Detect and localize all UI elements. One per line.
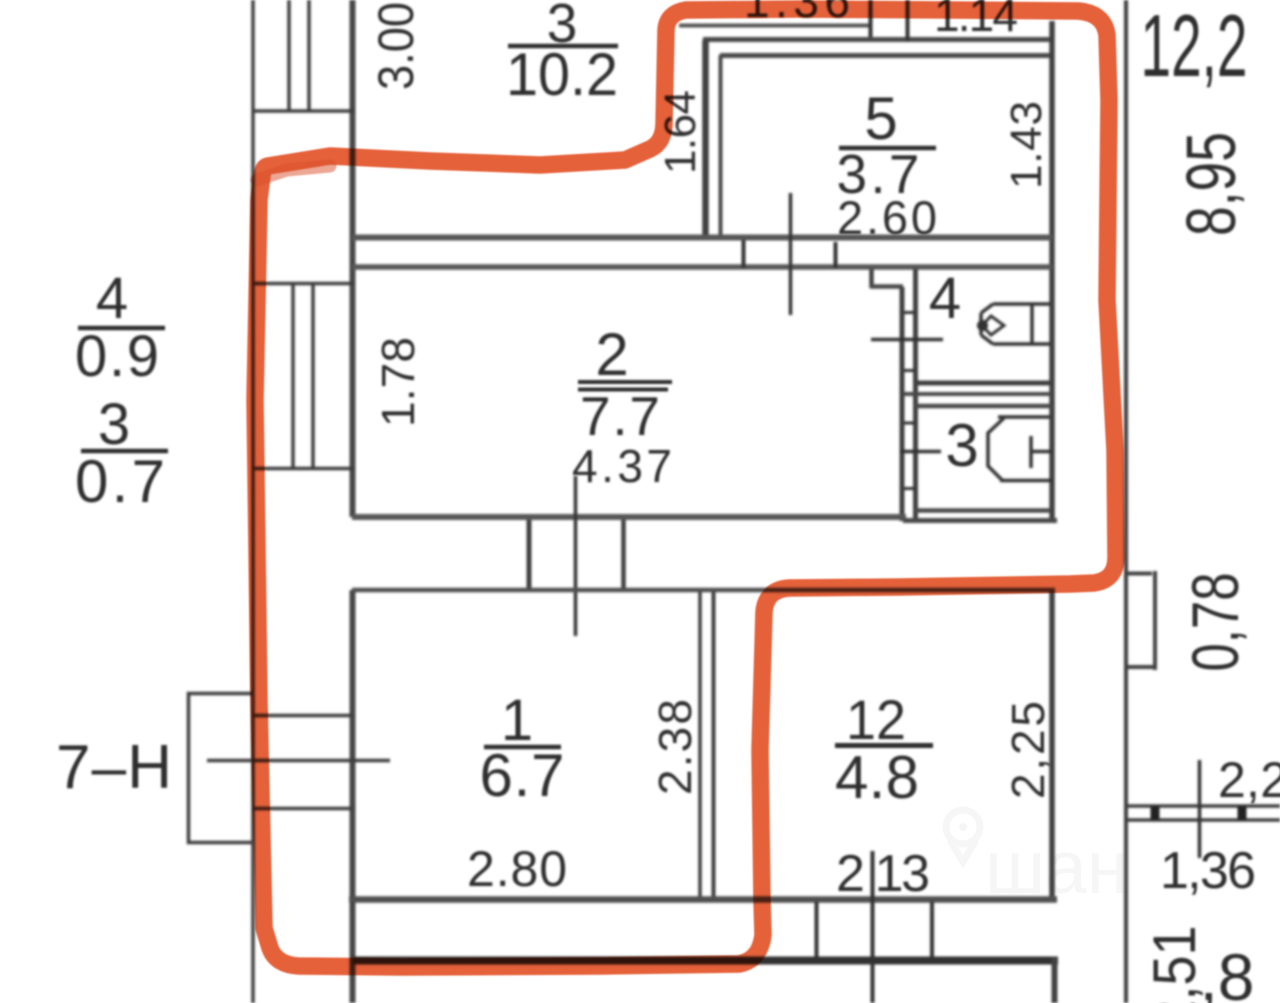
room2 fraction bar [578,382,672,390]
svg-text:2.38: 2.38 [649,699,701,795]
red marker loop [255,9,1116,967]
top tick b [906,0,910,41]
svg-text:2 13: 2 13 [836,845,930,903]
svg-text:8,95: 8,95 [1172,132,1250,236]
wall step v [869,269,874,288]
room5 left wall inner [719,55,723,240]
window2 sill bottom [252,467,354,471]
label 4 bar [78,326,165,331]
toilet tank top [998,415,1050,419]
wc door swing [900,450,941,454]
wall step h [870,284,903,289]
wc top wall [915,404,1052,409]
svg-text:1.43: 1.43 [1002,101,1051,189]
svg-text:3.00: 3.00 [368,2,424,90]
svg-text:1,36: 1,36 [1160,842,1256,900]
window1 sill [252,109,354,113]
room3 door jamb b [834,242,838,268]
room4 door swing [871,338,943,342]
room4 wc left wall [913,269,918,519]
window2 sill top [252,282,354,286]
svg-text:4.8: 4.8 [835,744,919,811]
svg-text:5: 5 [864,85,897,152]
top thin wall line [679,24,871,28]
room4 wc wall mid [903,392,1052,396]
door jamb left [527,520,532,590]
room1 fraction bar [484,745,561,750]
right wall ticks [1155,806,1242,820]
rooms bottom wall [349,896,1057,903]
entrance door line [207,759,390,763]
svg-text:12,2: 12,2 [1141,0,1248,95]
partition left line [698,592,702,898]
svg-text:,8: ,8 [1199,940,1254,1003]
rooms 2,4 top wall [352,264,1052,270]
red overlap start [257,166,330,180]
svg-text:2.80: 2.80 [467,841,567,897]
top mid wall line [703,37,1052,42]
room12 fraction bar [835,743,933,748]
svg-text:2,51: 2,51 [1141,926,1208,1003]
top inner wall line [720,53,1053,58]
right corridor wall lower [1049,592,1055,899]
svg-text:2: 2 [595,321,628,388]
svg-text:0.7: 0.7 [75,448,165,515]
sink faucet [982,316,1004,335]
left inner wall lower [350,590,356,1003]
svg-text:7.7: 7.7 [580,385,660,447]
svg-text:4: 4 [96,266,128,331]
partition right line [712,592,716,898]
right corridor wall upper [1049,21,1055,519]
sink dot [977,320,988,331]
door swing room1 [574,476,578,636]
bottom thick wall [352,957,1058,965]
room1 room12 top wall [352,588,1055,593]
svg-text:4: 4 [929,266,961,331]
right outer wall [1124,0,1128,1003]
svg-text:0,78: 0,78 [1178,573,1252,672]
label 3 bar [81,449,168,454]
window2 glazing [293,284,313,469]
room12 door swing [871,851,875,1003]
svg-text:6.7: 6.7 [480,742,565,809]
room3 door jamb a [742,240,746,268]
toilet flush [1031,436,1052,468]
room4 bottom wall [915,381,1050,386]
svg-text:2.60: 2.60 [837,191,937,244]
sink outline [981,304,1050,344]
left inner wall upper [350,0,356,517]
entrance opening bottom [252,807,352,811]
svg-text:0.9: 0.9 [75,324,159,389]
toilet bowl [988,418,1004,480]
svg-text:4.37: 4.37 [572,440,672,492]
room2 bottom wall [352,514,906,520]
sink divider [1030,305,1034,343]
wc bottom wall inner [915,508,1050,513]
room5 left wall outer [702,40,709,240]
bottom right corner [1052,957,1058,1003]
top tick a [869,0,873,40]
svg-text:10.2: 10.2 [506,41,618,108]
svg-text:3: 3 [945,412,978,479]
toilet bottom [1000,479,1052,483]
hall bottom wall [903,518,1057,523]
room5 fraction bar [839,146,936,151]
bottom stub a [815,902,819,958]
right double wall [1127,806,1280,820]
entrance opening top [254,714,352,718]
room3 fraction bar [508,44,618,49]
left outer wall [251,0,255,1003]
watermark cian pin [946,810,980,862]
door jamb right [621,520,626,590]
svg-text:1.78: 1.78 [372,337,424,427]
wall cavity ticks [904,313,915,489]
right protrusion [1127,571,1155,670]
room3 door swing [789,193,793,315]
svg-text:12: 12 [846,688,906,751]
svg-text:7–Н: 7–Н [56,733,172,802]
bottom stub b [930,902,934,958]
svg-text:2,2: 2,2 [1218,752,1280,808]
room2 right wall [900,287,905,521]
window1 glazing [289,0,309,111]
entrance box 7H [189,694,255,843]
svg-text:2,25: 2,25 [1002,701,1054,799]
right dim tick [1198,760,1202,858]
rooms 3,5 bottom wall [352,235,1052,241]
